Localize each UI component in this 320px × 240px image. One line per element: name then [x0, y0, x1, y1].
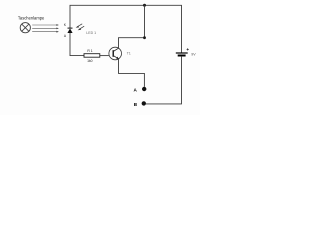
corner node collector	[143, 36, 146, 39]
wire resistor to transistor base	[100, 55, 109, 57]
svg-text:LED 1: LED 1	[86, 31, 96, 35]
wire top rail	[70, 5, 182, 52]
wire terminal B to battery minus	[146, 57, 182, 104]
junction node on top rail	[143, 4, 146, 7]
svg-text:T1: T1	[127, 52, 131, 56]
svg-text:Taschenlampe: Taschenlampe	[18, 15, 45, 20]
svg-text:1k0: 1k0	[87, 59, 93, 63]
wire LED to resistor	[70, 33, 84, 56]
wire collector to top junction	[119, 5, 145, 48]
light rays	[32, 24, 59, 32]
LED LED1	[64, 23, 96, 38]
battery BT1 9V	[176, 48, 196, 56]
terminal B	[142, 101, 146, 105]
lamp (flashlight) symbol	[20, 23, 30, 33]
wire emitter to terminal A	[119, 59, 145, 87]
LED light arrows	[76, 24, 85, 30]
resistor R1	[84, 49, 100, 63]
plus sign	[187, 48, 189, 50]
svg-text:9V: 9V	[191, 53, 196, 57]
transistor T1	[109, 47, 131, 60]
terminal A	[142, 87, 146, 91]
svg-text:R 1: R 1	[87, 49, 92, 53]
